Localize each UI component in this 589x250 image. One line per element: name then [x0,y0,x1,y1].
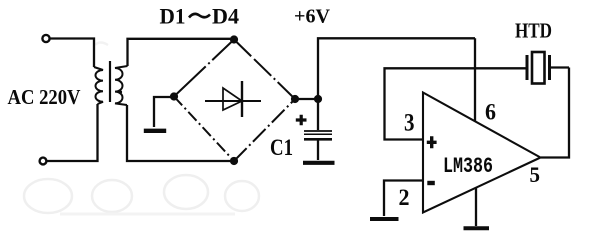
wire pin6 to +6V rail [474,38,476,121]
svg-text:5: 5 [530,162,541,187]
op-amp U1 LM386 triangle [423,93,541,213]
node top AC junction [230,35,238,43]
piezo HTD body [532,52,545,84]
terminal bottom input [40,158,47,165]
wire HTD to pin5 output [541,68,569,158]
capacitor C1 plus sign [296,115,307,126]
wire bridge minus to ground [154,97,173,127]
svg-text:2: 2 [399,185,410,210]
transformer T1 primary winding [94,67,103,104]
wire C1 to ground [317,140,319,160]
wire primary bottom [47,104,98,161]
svg-text:D4: D4 [212,4,239,29]
ground C1 [303,161,335,165]
wire pin4 to ground [475,188,477,227]
node right bridge junction [291,95,299,103]
svg-text:+6V: +6V [294,7,330,28]
bridge diode symbol triangle [223,88,242,110]
svg-text:AC 220V: AC 220V [8,85,81,109]
faint page bleed-through smudges [24,43,259,215]
op-amp plus input sign [427,136,437,148]
transformer T1 secondary winding [115,66,128,105]
capacitor C1 bottom plate [304,138,332,141]
piezo HTD left plate [526,55,529,80]
wire secondary bottom to bridge [127,105,234,161]
svg-text:C1: C1 [270,135,293,160]
wire pin2 to ground [384,181,423,217]
bridge rectifier D1-D4 edge bottom-right [234,99,295,161]
svg-text:3: 3 [404,110,415,137]
bridge rectifier D1-D4 edge top-left [174,40,234,97]
ground bridge negative [144,129,166,133]
wire +6V rail [318,38,475,99]
node +6V junction [314,95,322,103]
terminal top input [42,35,49,42]
transformer T1 core [109,61,111,102]
ground pin4 [464,226,490,230]
node left bridge junction [170,92,178,100]
svg-text:6: 6 [485,100,496,126]
bridge diode symbol lead [205,100,261,102]
wire bridge plus to node [295,98,318,100]
bridge rectifier D1-D4 edge top-right [234,40,295,100]
op-amp minus input sign [427,181,435,185]
bridge diode symbol cathode bar [241,81,243,117]
tilde of D1~D4 [189,14,210,18]
capacitor C1 top plate second stroke [304,133,332,135]
svg-text:HTD: HTD [515,19,552,43]
piezo HTD right plate [548,55,551,80]
svg-text:LM386: LM386 [443,153,493,179]
wire HTD right lead [551,66,569,68]
node bottom AC junction [230,157,238,165]
transformer T1 phasing dot [119,90,122,93]
wire secondary top to bridge [128,39,235,66]
wire primary top [50,39,94,68]
capacitor C1 top plate [304,130,332,132]
wire pin3 input bracket and HTD left lead [385,68,527,139]
bridge rectifier D1-D4 edge bottom-left [174,97,234,162]
ground pin2 [370,217,399,221]
svg-text:D1: D1 [160,4,186,29]
wire node to C1 [317,99,319,130]
